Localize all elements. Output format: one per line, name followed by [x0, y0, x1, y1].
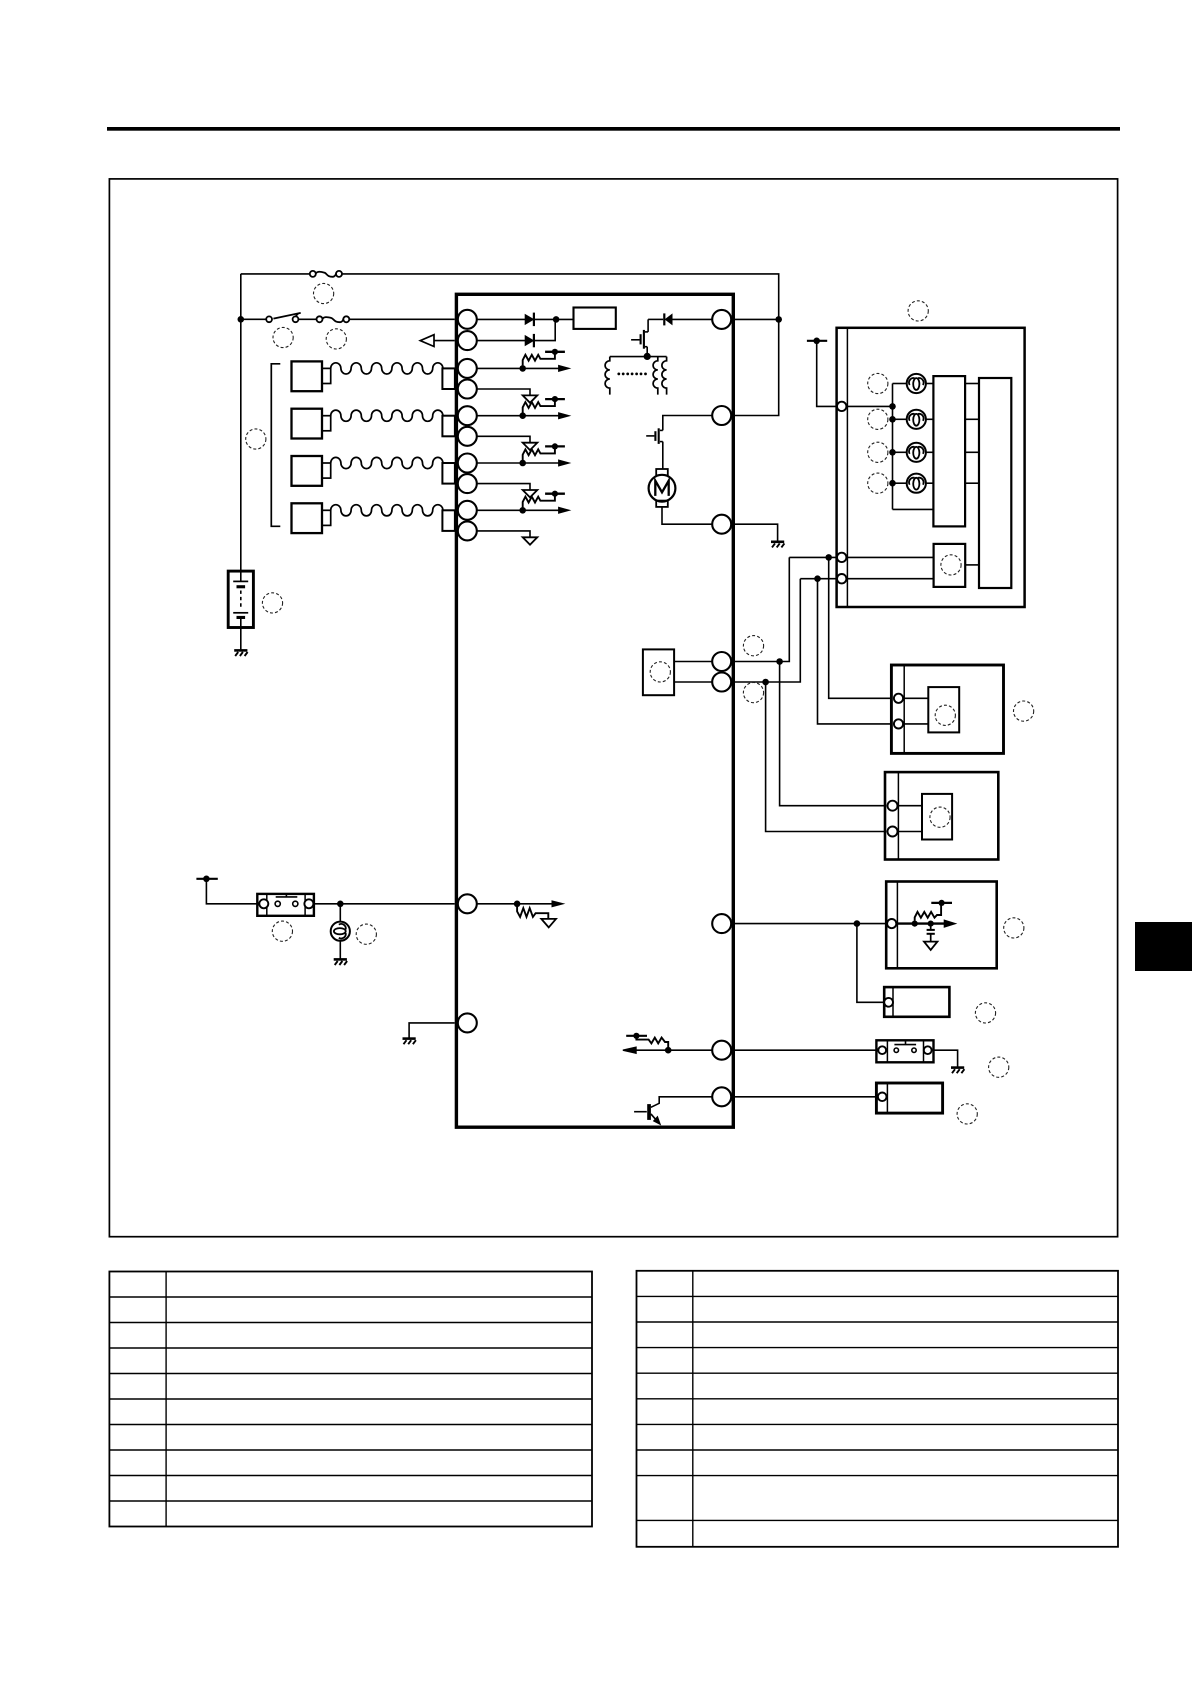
wire down to pump pin [733, 319, 778, 415]
sensor unit in ECM [643, 649, 674, 695]
ECM [456, 294, 733, 1127]
wire gauge to block2 [965, 564, 979, 566]
ECM pin injector 2 return [458, 427, 477, 446]
junction T3 branch [814, 575, 821, 582]
coolant temp sensor box C [886, 882, 997, 969]
wire pin tach internal [477, 340, 525, 342]
callout lamp 1 [868, 373, 888, 393]
bulb warning lamp 2 [907, 410, 926, 429]
wire lamp 2 leads [893, 418, 907, 420]
junction lamp 4 [889, 480, 896, 487]
callout lamp 2 [868, 409, 888, 429]
wire T2 down to ECM [733, 557, 789, 661]
junction temp branch [854, 920, 861, 927]
terminal B1 [888, 801, 898, 811]
ECM pin ground [458, 1013, 477, 1032]
zener clamp injector 2 [477, 436, 530, 442]
wire injector 1 coil harness [331, 363, 443, 374]
tachometer arrow [420, 335, 434, 347]
ECM pin injector 2 drive [458, 406, 477, 425]
wire box to ECM check pin [314, 903, 455, 905]
wire lamp 2 to driver [965, 418, 979, 420]
injector 1 [292, 361, 323, 391]
callout 8 sensor B wire [743, 683, 763, 703]
meter B+ tap [807, 340, 827, 342]
callout 1 fuse F1 [314, 283, 334, 303]
internal pull-up park switch [668, 1049, 731, 1051]
vehicle speed sensor box A [891, 665, 1003, 753]
thermistor symbol [897, 922, 944, 924]
junction lamp 2 [889, 416, 896, 423]
callout 6 combination meter [908, 301, 928, 321]
section index black tab [1135, 922, 1192, 971]
wire lamp 4 to driver [965, 482, 979, 484]
zener clamp injector 4 [477, 531, 530, 537]
page header rule [107, 127, 1120, 131]
ignition coil T1 [610, 356, 647, 358]
zener clamp injector 3 [477, 484, 530, 490]
meter connector strip [846, 328, 848, 607]
connector injector 2 at ECM [442, 416, 455, 437]
callout 10 temp sensor [1004, 918, 1024, 938]
park-neutral switch box E [876, 1040, 933, 1062]
callout 9 sensor box A [1014, 701, 1034, 721]
ground battery [234, 649, 247, 652]
ECM pin park switch [712, 1041, 731, 1060]
wire to park switch box [731, 1049, 876, 1051]
wire injector 3 coil harness [331, 457, 443, 468]
wire A terminals to rotor [903, 697, 928, 699]
wire switch to fuse F2 [298, 318, 316, 320]
terminal B2 [888, 827, 898, 837]
wire to speed sensor A [780, 662, 887, 806]
wire coil pin to node [731, 318, 778, 320]
wire pin IGN internal [477, 318, 525, 320]
wire T3 branch to sensor box A [818, 579, 892, 724]
junction T2 branch [825, 554, 832, 561]
callout 15 check lamp [356, 924, 376, 944]
junction regulator node [553, 316, 560, 323]
wire battery feed top [241, 273, 310, 275]
wire B terminals to rotor [898, 805, 923, 807]
ECM pin sensor A [712, 652, 731, 671]
comparator motif injector 4 [519, 507, 526, 514]
diode D1 [525, 315, 533, 325]
callout lamp 3 [868, 442, 888, 462]
junction battery node [238, 316, 245, 323]
capacitor to analog ground [930, 924, 932, 930]
legend table right [637, 1271, 1119, 1547]
terminal C1 [887, 919, 896, 928]
output transistor Q3 [634, 1111, 647, 1113]
ECM pin injector 3 return [458, 474, 477, 493]
relay box F [876, 1083, 942, 1113]
comparator motif injector 2 [519, 412, 526, 419]
wire ECM ground pin [409, 1023, 455, 1039]
ECM pin injector 1 return [458, 380, 477, 399]
wire branch to sensor D [857, 924, 884, 1003]
wire box E to ground [934, 1050, 958, 1067]
combination meter box [837, 328, 1025, 607]
lamp bus vertical [892, 384, 894, 510]
wire lamp 3 to driver [965, 451, 979, 453]
diagram outer border [109, 179, 1117, 1237]
diagnostic switch box [257, 894, 314, 916]
wire tap to switch box [206, 879, 257, 904]
wire battery vertical [240, 274, 242, 571]
ground box E [951, 1066, 964, 1069]
comparator motif injector 1 [519, 365, 526, 372]
wire battery to ground [240, 628, 242, 651]
vehicle speed sensor box B [885, 772, 998, 859]
wire motor to pin [662, 507, 712, 524]
wire T2 sensor 1 [789, 556, 933, 558]
wire pin to ground right [731, 524, 777, 542]
sensor B rotor box [922, 794, 952, 840]
fuse F2 [317, 316, 323, 322]
ground check lamp [334, 958, 347, 961]
motor M fuel pump [656, 469, 668, 475]
callout 12 park switch [989, 1057, 1009, 1077]
internal check pin motif [477, 903, 517, 905]
junction coil node [644, 353, 651, 360]
meter gauge box [934, 544, 966, 587]
wire lamp 3 leads [893, 451, 907, 453]
callout 7 sensor A wire [743, 636, 763, 656]
ECM pin injector 3 drive [458, 454, 477, 473]
injector group bracket [271, 364, 280, 527]
callout 11 sensor D [975, 1003, 995, 1023]
bulb warning lamp 4 [907, 474, 926, 493]
junction sensor A branch [776, 658, 783, 665]
junction lamp branch [337, 901, 344, 908]
voltage regulator block [574, 308, 616, 329]
callout gauge [941, 555, 961, 575]
wire injector 3 drive internal [477, 462, 523, 464]
bulb warning lamp 3 [907, 443, 926, 462]
ECM pin sensor B [712, 673, 731, 692]
wire ignition coil power [672, 318, 712, 320]
callout 3 fuse F2 [326, 329, 346, 349]
wire lamp 1 leads [893, 383, 907, 385]
ECM pin pump return [712, 515, 731, 534]
wire D1 to regulator [534, 318, 574, 320]
diode D2 [525, 336, 533, 346]
wire injector 1 drive internal [477, 367, 523, 369]
callout rotor B [930, 807, 950, 827]
injector 4 [292, 503, 323, 533]
meter driver block 1 [933, 376, 965, 526]
ground ECM left [403, 1037, 416, 1040]
wire injector 4 coil harness [331, 505, 443, 516]
ECM pin output F [712, 1087, 731, 1106]
fuse F1 [310, 271, 316, 277]
connector injector 1 at ECM [442, 368, 455, 389]
junction lamp 3 [889, 449, 896, 456]
ECM pin injector 4 drive [458, 501, 477, 520]
power transistor Q2 [663, 416, 712, 431]
ECM pin tachometer out [458, 331, 477, 350]
legend table left [109, 1272, 592, 1527]
ECM pin IGN-SW [458, 310, 477, 329]
ECM pin pump [712, 406, 731, 425]
zener clamp injector 1 [477, 389, 530, 395]
sensor A rotor box [928, 687, 959, 732]
bulb warning lamp 1 [907, 374, 926, 393]
wire temp sensor [731, 923, 886, 925]
wire T3 sensor 2 [800, 578, 933, 580]
ECM pin check [458, 894, 477, 913]
wire lamp 4 leads [893, 482, 907, 484]
terminal A2 [894, 719, 903, 728]
junction lamp bus [889, 403, 896, 410]
battery BAT [228, 571, 253, 627]
power transistor Q1 [647, 319, 649, 332]
wire T3 down to ECM [733, 579, 800, 682]
ECM pin coil power [712, 310, 731, 329]
comparator motif injector 3 [519, 460, 526, 467]
callout 2 ignition switch [273, 327, 293, 347]
wire lamp bus bottom [893, 508, 934, 510]
terminal A1 [894, 694, 903, 703]
wire lamp 1 to driver [965, 383, 979, 385]
wire to ignition switch [241, 318, 266, 320]
sensor box D [884, 987, 949, 1017]
callout rotor A [935, 705, 955, 725]
connector injector 3 at ECM [442, 463, 455, 484]
wire sensor unit leads [674, 661, 712, 663]
diode D3 [665, 314, 672, 324]
wire B+ to meter [817, 341, 837, 407]
terminal D1 [884, 998, 893, 1007]
wire injector 2 coil harness [331, 410, 443, 421]
wire to check lamp [339, 904, 341, 922]
connector injector 4 at ECM [442, 510, 455, 531]
wire fuse F2 to ECM pin IGN [349, 318, 455, 320]
injector 2 [292, 409, 323, 439]
ignition switch [266, 316, 272, 322]
callout 4 battery [262, 593, 282, 613]
meter terminal T1 [837, 402, 846, 411]
callout 14 diag switch [272, 921, 292, 941]
wire D2 up to node [534, 319, 555, 340]
ECM pin temp sensor [712, 914, 731, 933]
wire T2 branch to sensor box A [829, 557, 892, 698]
callout 5 injectors [246, 429, 266, 449]
callout sensor unit [650, 662, 670, 682]
callout 13 box F [957, 1104, 977, 1124]
callout lamp 4 [868, 473, 888, 493]
B+ tap diagnostic [196, 878, 217, 880]
junction sensor B branch [762, 679, 769, 686]
wire injector 2 drive internal [477, 415, 523, 417]
wire to box F [731, 1096, 876, 1098]
ECM pin injector 4 return [458, 521, 477, 540]
ECM pin injector 1 drive [458, 359, 477, 378]
wire lamp to ground [339, 941, 341, 960]
injector 3 [292, 456, 323, 486]
wire to speed sensor B [766, 682, 887, 832]
meter driver block 2 [979, 378, 1011, 588]
junction backup feed [775, 316, 782, 323]
wire injector 4 drive internal [477, 509, 523, 511]
wire T1 to lamp bus [846, 405, 892, 407]
check engine lamp [331, 922, 350, 941]
wire fuse F1 to ECM backup [342, 274, 779, 320]
ground ECM right [771, 540, 784, 543]
